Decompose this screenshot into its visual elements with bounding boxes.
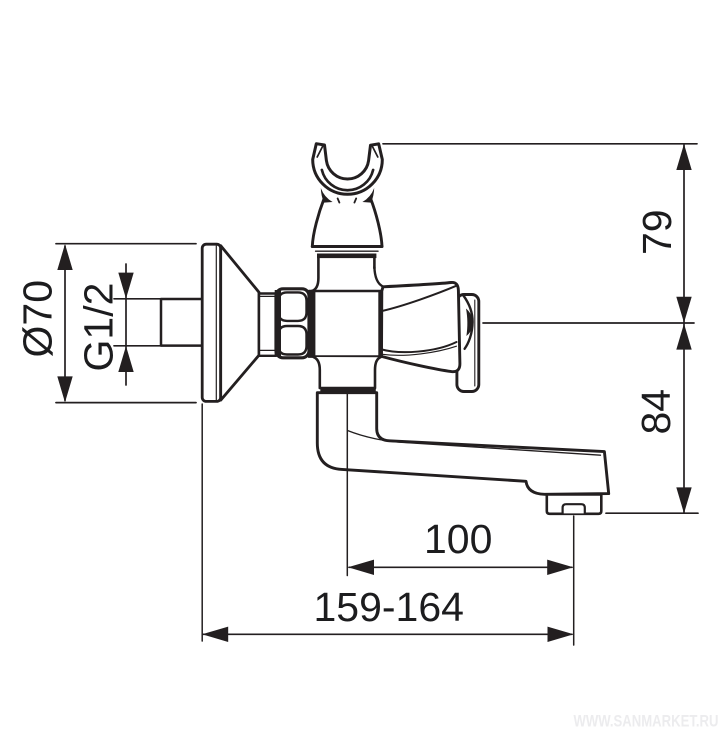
dimension 79 line — [676, 144, 691, 323]
escutcheon cone — [221, 246, 259, 401]
handle plate inner edge line — [474, 300, 476, 386]
wall flange plate inner edge line — [215, 246, 217, 400]
wire: bottom extension line from aerator to 84 dim — [606, 512, 698, 514]
wall flange plate — [202, 244, 221, 401]
bell below cradle — [312, 198, 382, 247]
bell left edge — [312, 198, 324, 247]
hex nut left dark edge — [275, 290, 281, 357]
svg-text:84: 84 — [633, 389, 679, 435]
cradle mid arc — [322, 170, 373, 190]
G1/2 threaded inlet pipe — [161, 299, 203, 346]
handle sculpt line lower thick — [382, 342, 457, 352]
handle lever plate — [457, 295, 479, 392]
cradle left gusset — [321, 188, 333, 203]
wire: G1/2 extension top — [114, 298, 160, 300]
dark band below bell — [317, 254, 376, 259]
wire: vertical extension from aerator down — [573, 516, 575, 645]
wire: top extension line from cradle prong to 79 dim — [383, 143, 697, 145]
svg-text:WWW.SANMARKET.RU: WWW.SANMARKET.RU — [574, 713, 719, 731]
bell notch marks — [338, 198, 357, 202]
svg-text:Ø70: Ø70 — [15, 280, 61, 358]
dimension Ø70 line — [57, 244, 72, 402]
shower cradle horseshoe — [313, 144, 383, 195]
hex nut upper facet — [279, 292, 307, 321]
svg-text:159-164: 159-164 — [314, 584, 464, 630]
bell bottom edge — [312, 245, 382, 248]
wire: vertical extension pipe centre down to 100 dim — [346, 394, 348, 576]
wire: middle extension line from handle to dim line — [483, 322, 694, 324]
spout top chamfer line — [348, 431, 601, 456]
cradle right gusset — [362, 188, 374, 203]
connector cylinder — [259, 294, 276, 356]
cradle left prong facet line — [317, 146, 323, 157]
dark collar band below body — [320, 388, 376, 393]
svg-text:100: 100 — [424, 516, 492, 562]
aerator tip — [563, 504, 585, 513]
dimension G1/2 line — [118, 264, 133, 385]
cradle right prong facet line — [372, 146, 378, 157]
handle knob cone — [382, 282, 460, 371]
handle knob bulge arc — [463, 296, 472, 349]
dimension 100 line — [348, 560, 573, 575]
hex nut body — [276, 289, 309, 358]
wire: left extension line top (flange top) — [56, 243, 196, 245]
spout (bend and horizontal arm) — [317, 393, 608, 495]
faucet body block — [309, 291, 382, 357]
wire: vertical extension from flange down — [201, 404, 203, 641]
body right dark band — [378, 290, 383, 357]
vertical pipe upper section — [312, 256, 384, 292]
pipe section below body — [314, 357, 381, 388]
wire: left extension line bottom (flange bottom) — [56, 402, 196, 404]
handle sculpt line lower thin — [383, 346, 457, 355]
svg-text:79: 79 — [634, 209, 680, 255]
hex nut lower facet — [279, 326, 307, 355]
svg-text:G1/2: G1/2 — [76, 283, 122, 372]
aerator housing — [547, 495, 602, 514]
dimension 159-164 line — [202, 627, 573, 642]
dimension 84 line — [676, 324, 691, 514]
handle sculpt line upper — [382, 286, 457, 311]
wire: G1/2 extension bottom — [114, 345, 160, 347]
connector cylinder inner lines — [260, 295, 276, 297]
bell bottom step line — [316, 250, 378, 252]
handle dark crescent — [466, 309, 473, 337]
body left dark band — [308, 290, 315, 357]
bell right edge — [370, 198, 382, 247]
